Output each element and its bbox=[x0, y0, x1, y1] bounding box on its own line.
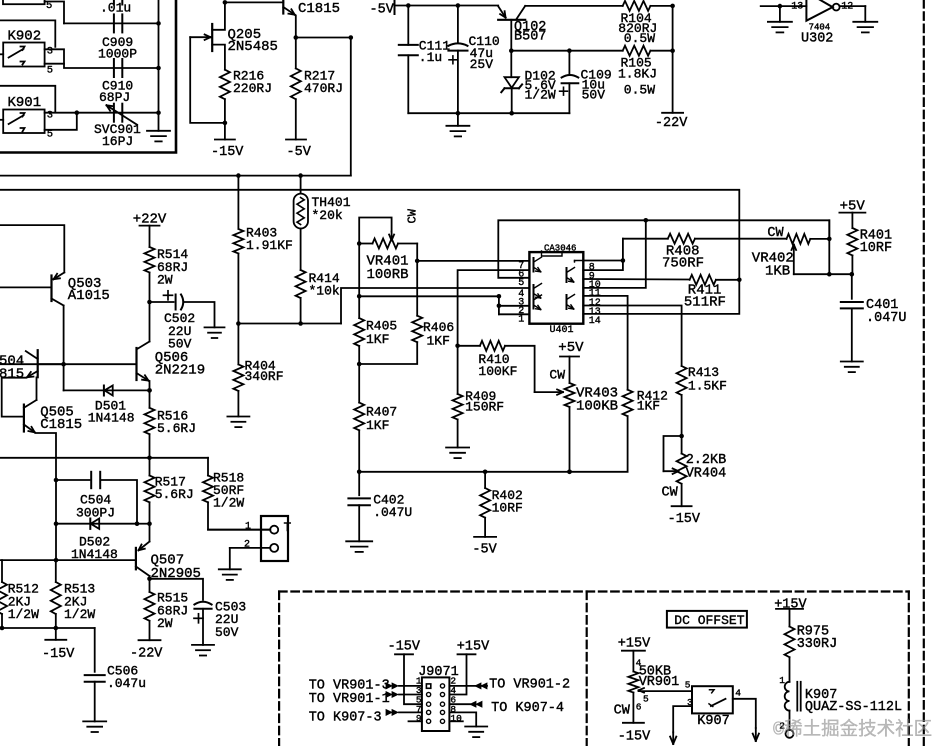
svg-text:13: 13 bbox=[791, 2, 803, 13]
svg-text:C1815: C1815 bbox=[298, 1, 340, 17]
svg-text:2: 2 bbox=[244, 540, 250, 551]
svg-text:CW: CW bbox=[549, 368, 565, 383]
svg-text:+15V: +15V bbox=[774, 598, 807, 613]
svg-text:330RJ: 330RJ bbox=[797, 637, 838, 652]
svg-text:U302: U302 bbox=[801, 32, 833, 47]
svg-text:+5V: +5V bbox=[558, 340, 584, 356]
svg-text:1/2W: 1/2W bbox=[213, 495, 244, 510]
svg-text:5: 5 bbox=[518, 278, 524, 289]
svg-text:2W: 2W bbox=[157, 616, 173, 631]
svg-text:1KB: 1KB bbox=[765, 263, 790, 279]
svg-text:1.5KF: 1.5KF bbox=[688, 378, 727, 393]
svg-text:5: 5 bbox=[685, 680, 691, 691]
svg-text:K907: K907 bbox=[697, 714, 729, 729]
svg-text:TO K907-4: TO K907-4 bbox=[491, 701, 564, 716]
svg-text:CW: CW bbox=[614, 703, 631, 718]
svg-text:0.5W: 0.5W bbox=[624, 83, 655, 98]
svg-text:DC OFFSET: DC OFFSET bbox=[674, 613, 744, 628]
svg-text:14: 14 bbox=[589, 316, 601, 327]
svg-text:CW: CW bbox=[662, 486, 679, 501]
svg-text:50V: 50V bbox=[582, 88, 606, 103]
svg-text:-15V: -15V bbox=[211, 145, 244, 160]
svg-text:3: 3 bbox=[47, 110, 53, 122]
svg-text:12: 12 bbox=[841, 2, 853, 13]
svg-text:220RJ: 220RJ bbox=[233, 81, 272, 96]
svg-text:10RF: 10RF bbox=[860, 241, 892, 256]
svg-text:*10k: *10k bbox=[309, 284, 340, 299]
svg-text:5.6RJ: 5.6RJ bbox=[155, 487, 194, 502]
svg-text:T: T bbox=[284, 520, 292, 535]
svg-text:CW: CW bbox=[406, 208, 420, 223]
svg-text:2W: 2W bbox=[157, 273, 173, 288]
svg-text:1N4148: 1N4148 bbox=[88, 410, 135, 425]
svg-text:-22V: -22V bbox=[655, 116, 688, 131]
svg-text:.1u: .1u bbox=[419, 50, 442, 65]
svg-text:C1815: C1815 bbox=[40, 417, 82, 433]
svg-text:.047U: .047U bbox=[866, 311, 907, 326]
svg-text:*20k: *20k bbox=[312, 208, 343, 223]
svg-text:-5V: -5V bbox=[287, 145, 312, 160]
svg-text:-15V: -15V bbox=[668, 512, 701, 527]
svg-text:2N2905: 2N2905 bbox=[151, 566, 201, 582]
svg-text:VR901: VR901 bbox=[639, 675, 680, 690]
svg-text:10RF: 10RF bbox=[492, 500, 523, 515]
svg-text:-15V: -15V bbox=[42, 647, 75, 662]
svg-text:-5V: -5V bbox=[370, 3, 395, 18]
svg-text:100KF: 100KF bbox=[478, 364, 517, 379]
svg-text:VR404: VR404 bbox=[686, 466, 727, 481]
svg-text:100RB: 100RB bbox=[367, 267, 409, 283]
svg-text:750RF: 750RF bbox=[662, 256, 704, 272]
svg-text:1/2W: 1/2W bbox=[525, 87, 556, 102]
svg-text:TO VR901-2: TO VR901-2 bbox=[489, 678, 570, 693]
svg-text:.047u: .047u bbox=[107, 676, 146, 691]
svg-text:.01u: .01u bbox=[100, 1, 131, 16]
svg-text:CW: CW bbox=[767, 226, 784, 241]
svg-text:9: 9 bbox=[416, 713, 422, 724]
svg-text:300PJ: 300PJ bbox=[76, 506, 115, 521]
svg-text:©稀土掘金技术社区: ©稀土掘金技术社区 bbox=[773, 719, 932, 741]
svg-text:6: 6 bbox=[636, 702, 642, 713]
svg-text:1.91KF: 1.91KF bbox=[246, 238, 293, 253]
svg-text:1.8KJ: 1.8KJ bbox=[618, 67, 657, 82]
svg-text:2N5485: 2N5485 bbox=[228, 39, 278, 55]
svg-text:1000P: 1000P bbox=[98, 46, 137, 61]
svg-text:50V: 50V bbox=[215, 625, 239, 640]
svg-text:16PJ: 16PJ bbox=[102, 134, 133, 149]
svg-text:25V: 25V bbox=[470, 57, 494, 72]
svg-text:3: 3 bbox=[47, 46, 53, 58]
svg-text:1KF: 1KF bbox=[366, 418, 389, 433]
svg-text:511RF: 511RF bbox=[684, 295, 726, 311]
svg-text:-22V: -22V bbox=[130, 646, 163, 661]
svg-text:150RF: 150RF bbox=[465, 399, 504, 414]
svg-text:1KF: 1KF bbox=[637, 399, 660, 414]
svg-text:4: 4 bbox=[735, 688, 741, 699]
svg-text:.047U: .047U bbox=[373, 505, 412, 520]
svg-text:1KF: 1KF bbox=[366, 332, 389, 347]
svg-text:B507: B507 bbox=[514, 30, 546, 45]
svg-text:-5V: -5V bbox=[472, 542, 497, 557]
svg-text:5: 5 bbox=[47, 65, 53, 77]
svg-text:R406: R406 bbox=[423, 320, 454, 335]
svg-text:U401: U401 bbox=[550, 325, 574, 336]
svg-text:TO VR901-1: TO VR901-1 bbox=[309, 692, 390, 707]
svg-text:815: 815 bbox=[0, 366, 24, 382]
svg-text:-15V: -15V bbox=[388, 640, 421, 655]
svg-text:10: 10 bbox=[450, 713, 462, 724]
svg-text:340RF: 340RF bbox=[245, 369, 284, 384]
svg-text:QUAZ-SS-112L: QUAZ-SS-112L bbox=[805, 700, 902, 715]
svg-text:0.5W: 0.5W bbox=[624, 31, 655, 46]
svg-text:CA3046: CA3046 bbox=[544, 243, 576, 253]
svg-text:K902: K902 bbox=[8, 29, 42, 45]
svg-text:1/2W: 1/2W bbox=[8, 607, 39, 622]
svg-text:5: 5 bbox=[643, 693, 649, 704]
svg-text:68PJ: 68PJ bbox=[99, 90, 130, 105]
svg-text:470RJ: 470RJ bbox=[304, 81, 343, 96]
svg-text:5.6RJ: 5.6RJ bbox=[157, 421, 196, 436]
svg-text:100KB: 100KB bbox=[576, 399, 618, 415]
svg-text:+15V: +15V bbox=[618, 637, 651, 652]
svg-text:1KF: 1KF bbox=[427, 334, 450, 349]
svg-text:TO K907-3: TO K907-3 bbox=[309, 711, 382, 726]
svg-text:1/2W: 1/2W bbox=[64, 607, 95, 622]
svg-text:-15V: -15V bbox=[618, 730, 651, 745]
svg-text:+15V: +15V bbox=[457, 640, 490, 655]
svg-text:A1015: A1015 bbox=[68, 288, 110, 304]
svg-text:1: 1 bbox=[245, 522, 251, 533]
svg-text:K901: K901 bbox=[8, 95, 42, 111]
svg-text:1: 1 bbox=[518, 315, 524, 326]
svg-text:2N2219: 2N2219 bbox=[155, 362, 205, 378]
